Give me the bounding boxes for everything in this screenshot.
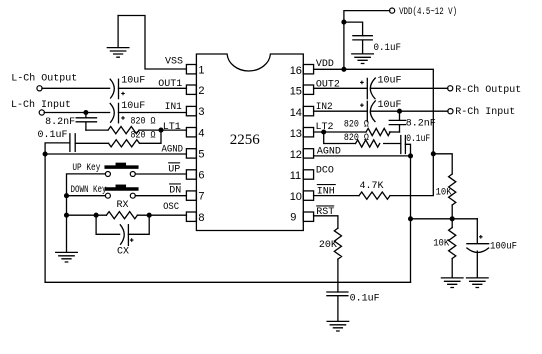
svg-text:RST: RST: [316, 207, 334, 218]
wire down to 10K lower: [451, 219, 453, 228]
svg-text:L-Ch Input: L-Ch Input: [11, 99, 71, 111]
plus 100uF: [479, 235, 483, 239]
wire LT1 down to lower resistor: [140, 130, 162, 143]
pin 3 box: [186, 106, 196, 115]
wire capacitor to pin 2: [119, 87, 187, 89]
svg-text:10uF: 10uF: [121, 101, 145, 112]
resistor 4.7K: [359, 192, 390, 199]
svg-text:R-Ch Input: R-Ch Input: [455, 106, 515, 118]
resistor 820 ohm upper (left): [108, 127, 139, 134]
svg-text:OSC: OSC: [163, 202, 179, 213]
capacitor 10uF (IN1): [110, 103, 114, 122]
svg-text:UP: UP: [168, 165, 180, 176]
pin 9 box: [303, 212, 313, 221]
svg-text:10K: 10K: [433, 238, 449, 249]
ground (keys): [56, 252, 78, 262]
capacitor 0.1uF (right): [401, 136, 406, 154]
svg-text:9: 9: [290, 211, 296, 223]
svg-text:8.2nF: 8.2nF: [406, 118, 436, 129]
wire OSC row: [67, 214, 107, 216]
wire RX to pin 8: [137, 214, 186, 216]
svg-text:20K: 20K: [319, 240, 337, 251]
capacitor 0.1uF (top): [353, 36, 372, 54]
wire bottom rail: [45, 281, 410, 283]
resistor 20K: [334, 228, 341, 259]
pin 2 box: [186, 85, 196, 94]
wire AGND right pin12: [314, 155, 411, 157]
svg-text:4.7K: 4.7K: [360, 181, 384, 192]
wire right AGND vertical down to bottom rail: [410, 156, 412, 282]
wire L-Ch Input to capacitor: [44, 112, 109, 114]
svg-text:INH: INH: [317, 186, 335, 197]
svg-text:10: 10: [290, 191, 302, 203]
switch UP key: [105, 172, 110, 177]
wire L-Ch Output to capacitor: [42, 87, 110, 89]
svg-text:VDD: VDD: [316, 59, 334, 70]
wire VDD rail pin16 to right: [314, 69, 434, 154]
svg-text:UP Key: UP Key: [72, 163, 100, 174]
node LT1 junction: [159, 128, 163, 132]
svg-text:2: 2: [198, 85, 204, 97]
svg-text:RX: RX: [117, 200, 129, 211]
wire 8.2nF down to resistor: [390, 131, 400, 133]
wire left rail down: [44, 154, 46, 282]
svg-text:0.1uF: 0.1uF: [350, 293, 380, 304]
pin 4 box: [186, 128, 196, 137]
pin 6 box: [186, 170, 196, 179]
wire cap to R-Ch Input: [371, 110, 448, 112]
capacitor 10uF (OUT1): [110, 79, 114, 98]
capacitor CX: [120, 225, 124, 244]
svg-text:11: 11: [290, 170, 301, 182]
wire LT2 down to lower resistor: [324, 132, 356, 144]
svg-text:12: 12: [290, 149, 302, 161]
wire 4.7K to VDD node: [390, 154, 433, 196]
svg-text:10uF: 10uF: [121, 75, 145, 86]
svg-text:16: 16: [290, 65, 302, 77]
svg-text:0.1uF: 0.1uF: [374, 43, 402, 54]
svg-text:8: 8: [198, 212, 204, 224]
svg-text:820 Ω: 820 Ω: [131, 116, 156, 127]
wire resistor to LT1 node: [139, 129, 186, 131]
wire 10K lower to ground: [451, 259, 453, 278]
pin 15 box: [303, 85, 313, 94]
node AGND left junction: [43, 152, 47, 156]
svg-text:14: 14: [290, 107, 302, 119]
wire CX loop right: [128, 215, 149, 234]
wire keys rail: [67, 174, 106, 252]
node mid-left junction: [409, 217, 413, 221]
wire to 0.1uF top cap: [344, 22, 363, 36]
node VDD divider junction: [431, 152, 435, 156]
node VDD cap junction: [342, 20, 346, 24]
resistor 820 ohm lower (left): [109, 140, 140, 147]
plus CX: [130, 238, 134, 242]
wire 10K to mid junction: [451, 205, 453, 219]
ground (10K): [441, 278, 463, 288]
wire resistor to 0.1uF right: [384, 143, 401, 145]
node R-Ch Output terminal: [448, 86, 453, 91]
switch DOWN key: [67, 195, 106, 197]
svg-text:10uF: 10uF: [378, 100, 402, 111]
node OSC junction: [65, 213, 69, 217]
node CX left junction: [94, 213, 98, 217]
pin 12 box: [303, 149, 313, 158]
svg-text:VDD(4.5~12 V): VDD(4.5~12 V): [399, 6, 457, 18]
resistor 10K lower: [449, 228, 456, 259]
svg-text:OUT1: OUT1: [158, 79, 182, 90]
wire cap to R-Ch Output: [371, 87, 448, 89]
capacitor 8.2nF (left): [76, 113, 96, 131]
svg-text:DCO: DCO: [316, 166, 334, 177]
pin 7 box: [186, 191, 196, 200]
svg-text:10uF: 10uF: [378, 76, 402, 87]
svg-text:10K: 10K: [436, 187, 452, 198]
capacitor 8.2nF (right): [389, 111, 405, 132]
resistor 820 ohm lower (right): [356, 140, 380, 147]
wire LT2 pin13: [314, 131, 366, 133]
svg-text:LT2: LT2: [316, 122, 334, 133]
plus IN1 cap: [121, 116, 125, 120]
pin 14 box: [303, 106, 313, 115]
svg-text:CX: CX: [117, 247, 129, 258]
wire capacitor to pin 3: [119, 112, 187, 114]
wire IN2 pin14 to cap: [314, 110, 368, 112]
node junction IN2/8.2nF: [398, 109, 402, 113]
svg-text:2256: 2256: [230, 132, 260, 148]
pin 11 box: [303, 170, 313, 179]
ground (bottom 0.1uF): [327, 321, 349, 331]
svg-text:820 Ω: 820 Ω: [131, 131, 156, 142]
svg-text:13: 13: [290, 128, 302, 140]
svg-text:3: 3: [198, 106, 204, 118]
node L-Ch Output terminal: [37, 86, 42, 91]
wire VSS: ground to pin 1: [118, 16, 186, 70]
node DN key junction: [65, 194, 69, 198]
pin 8 box: [186, 212, 196, 221]
wire DOWN key to pin 7: [135, 195, 186, 197]
svg-text:LT1: LT1: [163, 122, 181, 133]
plus OUT2 cap: [360, 81, 364, 85]
wire RST pin9 down: [314, 216, 338, 228]
resistor 10K upper: [449, 174, 456, 205]
resistor 820 ohm upper (right): [366, 128, 390, 135]
IC U1 2256 body: [196, 54, 303, 231]
ground (VSS top-left): [117, 16, 119, 48]
svg-text:4: 4: [198, 127, 204, 139]
wire UP key to pin 6: [135, 173, 186, 175]
svg-text:DOWN Key: DOWN Key: [71, 185, 107, 196]
capacitor 0.1uF (bottom): [327, 292, 348, 321]
wire 0.1uF to left rail: [45, 143, 70, 154]
svg-text:IN2: IN2: [316, 102, 333, 113]
svg-text:IN1: IN1: [165, 102, 182, 113]
pin 5 box: [186, 149, 196, 158]
wire VDD terminal down: [344, 11, 390, 70]
node AGND right junction: [409, 154, 413, 158]
capacitor 10uF (OUT2): [366, 78, 368, 98]
wire VDD node to 10K top: [433, 154, 452, 174]
wire 0.1uF right plate to AGND vertical: [405, 144, 410, 156]
node VDD rail junction: [342, 67, 346, 71]
node divider mid junction: [450, 217, 454, 221]
wire OUT2 pin15 to cap: [314, 87, 368, 89]
ground (100uF): [467, 278, 489, 288]
svg-text:820 Ω: 820 Ω: [344, 119, 369, 130]
pin 16 box: [303, 65, 313, 74]
capacitor 0.1uF (left): [70, 134, 75, 152]
svg-text:15: 15: [290, 86, 302, 98]
capacitor 100uF: [467, 219, 489, 278]
pin 1 box: [186, 65, 196, 74]
wire 20K down to cap: [337, 259, 339, 292]
wire resistor to 0.1uF: [75, 142, 108, 144]
svg-text:L-Ch Output: L-Ch Output: [11, 72, 77, 84]
capacitor 10uF (IN2): [366, 101, 368, 121]
wire 8.2nF to resistor: [86, 129, 108, 131]
svg-text:6: 6: [198, 170, 204, 182]
node LT2 junction: [322, 130, 326, 134]
node VDD terminal: [390, 8, 395, 13]
node R-Ch Input terminal: [448, 109, 453, 114]
plus OUT1 cap: [121, 92, 125, 96]
svg-text:AGND: AGND: [317, 147, 341, 158]
wire INH pin10 to 4.7K: [314, 195, 359, 197]
plus IN2 cap: [360, 103, 364, 107]
svg-text:5: 5: [198, 149, 204, 161]
svg-text:820 Ω: 820 Ω: [344, 133, 369, 144]
svg-text:R-Ch Output: R-Ch Output: [455, 84, 521, 96]
svg-text:100uF: 100uF: [490, 242, 517, 253]
wire mid junction horizontal: [411, 218, 478, 220]
svg-text:1: 1: [198, 64, 204, 76]
ground (top 0.1uF): [352, 54, 374, 64]
pin 10 box: [303, 191, 313, 200]
svg-text:OUT2: OUT2: [316, 79, 340, 90]
svg-text:7: 7: [198, 191, 204, 203]
wire AGND to pin 5: [45, 153, 186, 155]
svg-text:VSS: VSS: [165, 57, 183, 68]
svg-text:AGND: AGND: [162, 145, 184, 156]
node L-Ch Input terminal: [39, 110, 44, 115]
resistor RX: [106, 212, 137, 219]
wire CX loop left: [96, 215, 120, 234]
pin 13 box: [303, 128, 313, 137]
node junction IN1/8.2nF: [84, 111, 88, 115]
svg-text:DN: DN: [169, 185, 181, 196]
svg-text:8.2nF: 8.2nF: [45, 117, 75, 128]
svg-text:0.1uF: 0.1uF: [38, 130, 68, 141]
svg-text:0.1uF: 0.1uF: [406, 134, 430, 145]
node CX right junction: [147, 213, 151, 217]
